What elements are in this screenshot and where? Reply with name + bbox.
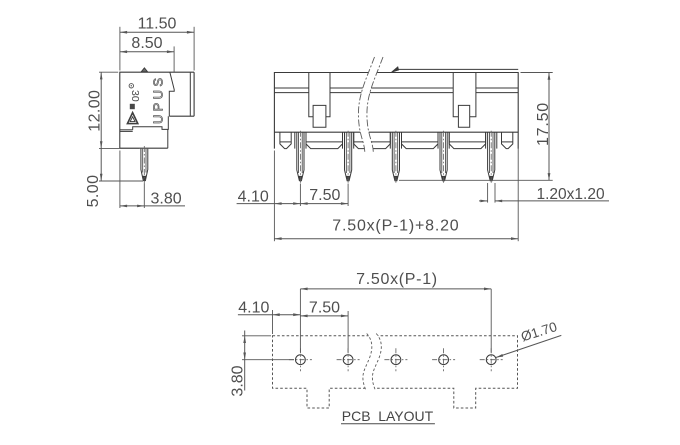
front view: latch 1 foot xyxy=(313,105,326,127)
pcb layout: hole 5 crosshair xyxy=(480,359,503,361)
dim 7.50 (pcb, hole pitch) xyxy=(300,315,348,317)
front view: pin 2 collar xyxy=(342,132,344,148)
front view: pin 3 collar xyxy=(389,132,391,148)
pcb layout: hole 1 crosshair xyxy=(289,359,312,361)
dim 7.50 (front, pin pitch) xyxy=(300,203,348,205)
front view: latch 1 xyxy=(309,73,330,117)
dim 3.80 (pin offset from face) xyxy=(119,151,121,209)
pcb layout: hole 4 xyxy=(439,355,449,365)
svg-text:Ø1.70: Ø1.70 xyxy=(519,319,559,344)
side view: body bottom edge xyxy=(120,147,168,149)
side view: lower right profile xyxy=(133,116,169,130)
pcb layout: break line left xyxy=(363,334,372,391)
pcb layout caption underline xyxy=(341,423,435,425)
dim 3.80 (pcb, hole to board edge) xyxy=(242,335,271,337)
front view: standoff bay 3-4 xyxy=(402,132,439,148)
dim 4.10 (pcb, edge to hole 1) xyxy=(238,314,301,316)
svg-text:UPUS: UPUS xyxy=(150,75,165,124)
front view: wire lever line xyxy=(396,68,518,70)
front view: standoff bay 1-2 xyxy=(306,132,343,148)
dim 7.50x(P-1) (hole span) xyxy=(300,288,491,290)
svg-text:LAYOUT: LAYOUT xyxy=(378,408,433,424)
svg-text:30: 30 xyxy=(129,90,141,102)
pcb layout: hole 2 crosshair xyxy=(337,359,360,361)
front view: left end standoff block xyxy=(280,132,291,148)
side view: flange outer edge xyxy=(193,72,195,116)
front view: pin 5 xyxy=(488,132,495,181)
svg-text:3.80: 3.80 xyxy=(230,365,247,396)
front view: pin 4 collar xyxy=(437,132,439,148)
front view: pin 3 centerline xyxy=(395,131,397,184)
front view: pin 5 collar xyxy=(485,132,487,148)
svg-text:7.50: 7.50 xyxy=(309,187,340,204)
svg-text:8.50: 8.50 xyxy=(131,35,162,52)
side view: small registered mark xyxy=(129,84,133,88)
svg-text:4.10: 4.10 xyxy=(238,299,269,316)
front view: body outline xyxy=(274,73,518,149)
side view: flange bottom edge xyxy=(169,115,194,117)
svg-text:17.50: 17.50 xyxy=(535,102,552,146)
side view: connector body outline xyxy=(120,72,194,148)
front view: pin 2 xyxy=(345,132,352,181)
front view: lever tip xyxy=(391,67,398,72)
pcb layout: hole 5 xyxy=(486,355,496,365)
pcb layout: hole 3 crosshair xyxy=(384,359,407,361)
front view: pin 5 centerline xyxy=(490,131,492,184)
front view: latch 2 xyxy=(453,73,476,117)
svg-text:5.00: 5.00 xyxy=(85,175,102,208)
side view: solder pin xyxy=(141,149,148,181)
pcb layout: board outline (dashed) xyxy=(273,336,518,408)
pcb layout: break line right xyxy=(372,334,381,391)
front view: pin 2 centerline xyxy=(347,131,349,184)
front view: pin 3 xyxy=(392,132,399,181)
pcb layout: hole 3 xyxy=(391,355,401,365)
front view: pin 1 collar xyxy=(294,132,296,148)
side view: right profile / mating face xyxy=(169,72,174,116)
svg-text:1.20x1.20: 1.20x1.20 xyxy=(537,186,605,203)
front view: pin 1 xyxy=(297,132,304,181)
svg-text:7.50: 7.50 xyxy=(309,299,340,316)
dim 12.00 (body height) xyxy=(100,72,102,148)
side view: flange inner edge xyxy=(189,73,191,116)
svg-text:3.80: 3.80 xyxy=(151,191,182,208)
dim 4.10 (front, edge to pin 1) xyxy=(237,203,301,205)
side view: recycling triangle mark xyxy=(127,113,137,124)
front view: break line left xyxy=(358,57,374,152)
dim 8.50 (body width) xyxy=(120,51,174,53)
dim 1.20x1.20 (pin cross-section) xyxy=(487,183,489,203)
side view: standoff block right edge xyxy=(167,129,169,148)
dim 11.50 (side view overall width) xyxy=(120,31,194,33)
front view: break line right xyxy=(367,57,383,152)
front view: break band mask xyxy=(358,57,383,152)
front view: standoff bay 4-5 xyxy=(449,132,485,148)
pcb layout: hole 1 xyxy=(296,355,306,365)
side view: pin centerline xyxy=(143,146,145,184)
front view: pin 4 xyxy=(440,132,447,181)
dim 17.50 (overall height) xyxy=(521,72,553,74)
pcb layout: hole 2 xyxy=(343,355,353,365)
dim 7.50x(P-1)+8.20 (overall width) xyxy=(273,151,275,242)
pcb layout: break band mask xyxy=(363,334,381,391)
side view: polarization bump on top xyxy=(141,68,147,72)
pcb layout: hole 4 crosshair xyxy=(432,359,455,361)
side view: tiny date mark xyxy=(130,104,135,109)
front view: top rim lines xyxy=(274,87,308,89)
svg-text:12.00: 12.00 xyxy=(87,90,104,132)
dim leader Ø1.70 (hole diameter) xyxy=(496,335,561,357)
front view: standoff bay 2-3 xyxy=(354,132,391,148)
front view: body bottom edge xyxy=(274,131,518,133)
side view: left step double line xyxy=(120,129,133,131)
svg-text:PCB: PCB xyxy=(342,408,371,424)
front view: right end standoff block xyxy=(502,132,513,148)
svg-text:4.10: 4.10 xyxy=(238,188,269,205)
dim 5.00 (pin length) xyxy=(100,148,102,181)
front view: latch 2 foot xyxy=(458,105,469,127)
svg-text:7.50x(P-1)+8.20: 7.50x(P-1)+8.20 xyxy=(332,217,459,234)
svg-text:7.50x(P-1): 7.50x(P-1) xyxy=(356,271,438,288)
front view: pin 1 centerline xyxy=(299,131,301,184)
front view: pin 4 centerline xyxy=(443,131,445,184)
svg-text:11.50: 11.50 xyxy=(138,16,177,33)
